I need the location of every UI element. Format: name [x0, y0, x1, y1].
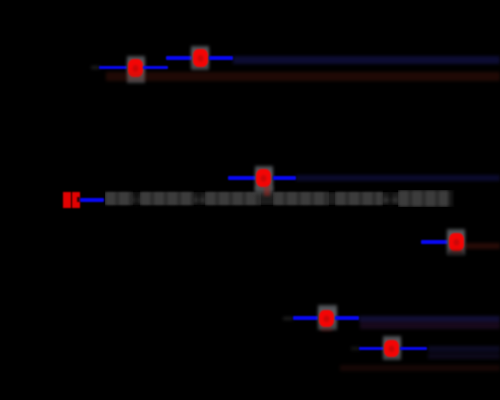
jpeg streak navy bottom1: [359, 316, 500, 322]
wire fade-in left of bond1: [91, 66, 100, 69]
bond HO-C: [80, 198, 105, 202]
bond C-O1: [99, 66, 127, 70]
carbon chain blob E: [335, 190, 383, 207]
jpeg streak navy middle: [296, 175, 500, 181]
atom O4: [449, 233, 464, 251]
jpeg streak navy top: [233, 56, 500, 64]
bond C-O3 left: [228, 176, 256, 180]
atom O2: [193, 49, 208, 67]
bond O6-C: [400, 347, 427, 351]
atom O of HO: [72, 192, 81, 208]
atom O5: [319, 310, 334, 328]
jpeg streak purple bottom2: [428, 346, 500, 352]
label box O3 (with lower ghost): [255, 166, 273, 193]
bond C-O6: [359, 347, 385, 351]
jpeg streak maroon top: [106, 72, 500, 81]
bond C-O2: [166, 56, 192, 60]
label box O2: [191, 46, 209, 70]
ghost red dash under O3: [264, 186, 270, 196]
atom O1: [128, 59, 143, 77]
carbon chain blob D: [273, 190, 329, 207]
carbon chain blob F (fades out right): [398, 190, 456, 207]
bond O2-C: [209, 56, 233, 60]
label box O5: [318, 305, 337, 330]
jpeg streak maroon bottom1: [360, 322, 500, 329]
ghost red arc under O4: [450, 249, 463, 253]
carbon chain blob A: [105, 190, 133, 207]
carbon chain blob C: [205, 190, 261, 207]
wire fade-in left of O6 bond: [351, 347, 360, 350]
notch in O of HO: [77, 197, 80, 201]
dark blotch on O4 box bottom: [448, 251, 464, 256]
carbon chain blob B: [140, 190, 194, 207]
label box O1: [127, 56, 145, 83]
gap dash 1: [133, 198, 141, 202]
atom O3: [256, 169, 272, 187]
atom H of HO: [63, 192, 71, 208]
wire fade-in left of O5 bond: [283, 317, 293, 320]
bond C-O4: [421, 240, 449, 244]
carbon chain underlay haze: [105, 192, 452, 206]
ghost red dash under O5: [321, 328, 332, 331]
bond C-O5: [293, 316, 319, 320]
bond O1-C: [143, 66, 168, 70]
label box O4: [447, 229, 465, 255]
bond O5-C: [335, 316, 359, 320]
gap dash 2: [194, 198, 205, 202]
label box O6: [383, 336, 401, 360]
atom O6: [384, 340, 399, 358]
gap dash 3: [383, 198, 398, 202]
jpeg streak maroon bottom2: [340, 365, 500, 371]
jpeg streak maroon right: [465, 243, 500, 250]
bond O3-C right: [273, 176, 297, 180]
